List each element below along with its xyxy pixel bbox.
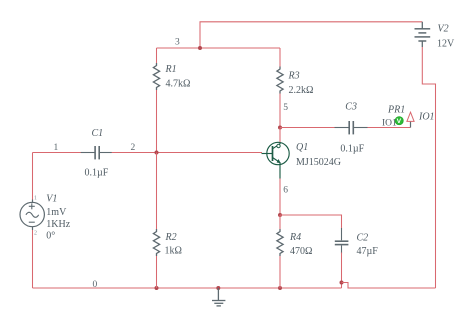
svg-text:5: 5 [283,103,288,113]
on-page connector IO1 [410,121,412,127]
svg-text:1mV: 1mV [46,207,67,218]
svg-text:0.1µF: 0.1µF [85,168,109,179]
svg-text:12V: 12V [437,39,455,50]
svg-text:2: 2 [34,231,37,237]
svg-text:1KHz: 1KHz [46,219,70,230]
node 6 junction dot [278,213,282,217]
svg-text:1kΩ: 1kΩ [165,246,182,257]
resistor R4 [277,229,283,256]
svg-text:1: 1 [54,143,59,153]
wire C2 bottom lead [341,253,343,289]
resistor R3 [277,67,283,94]
svg-text:R3: R3 [288,71,300,82]
svg-text:4.7kΩ: 4.7kΩ [166,79,191,90]
svg-text:PR1: PR1 [387,105,405,116]
wire V1 top lead [32,153,34,201]
wire node 1/2 horizontal (V1 to base) [33,152,82,154]
wire right riser to battery [422,47,435,288]
wire C3 to IO1 connector [368,127,411,129]
svg-text:3: 3 [175,38,180,48]
svg-text:0°: 0° [46,230,55,241]
svg-text:Q1: Q1 [296,142,308,153]
wire bottom rail [33,287,342,289]
wire R2 bottom lead [156,256,158,288]
resistor R2 [153,229,159,256]
transistor Q1 [262,142,290,178]
svg-text:6: 6 [283,186,288,196]
svg-text:IO1: IO1 [382,119,397,129]
svg-text:470Ω: 470Ω [290,246,312,257]
svg-text:R2: R2 [165,232,177,243]
svg-text:C1: C1 [92,128,104,139]
wire V1 bottom lead [32,230,34,288]
wire R4 bottom lead [279,256,281,288]
wire node 3 horizontal [157,47,281,49]
svg-text:2: 2 [131,143,136,153]
wire R2 top lead [156,153,158,230]
wire R3 bottom lead to collector node 5 [279,94,281,128]
svg-text:V2: V2 [438,23,449,34]
capacitor C3 [335,121,368,134]
capacitor C1 [81,146,112,159]
node 3 junction dot [198,46,202,50]
wire R1 bottom lead to node 2 [156,90,158,153]
wire notch to right rail [342,283,436,289]
wire node 6 to C2 [280,215,342,229]
svg-text:2.2kΩ: 2.2kΩ [289,85,314,96]
svg-text:0: 0 [93,280,98,290]
svg-text:47µF: 47µF [357,246,379,257]
wire R3 top lead [279,48,281,67]
node 2 junction dot [155,151,159,155]
svg-text:IO1: IO1 [418,112,435,123]
svg-text:C2: C2 [357,233,369,244]
node 5 junction dot [278,126,282,130]
battery V2 [415,22,431,47]
svg-text:R4: R4 [289,232,301,243]
junction dot ground [216,286,220,290]
junction dot C2 bottom [340,281,344,285]
svg-text:V1: V1 [46,193,57,204]
resistor R1 [153,63,159,90]
wire collector stub [279,128,281,143]
junction dot R2 bottom [155,286,159,290]
wire R4 top lead [279,215,281,229]
junction dot R4 bottom [278,286,282,290]
wire top rail from node 3 riser to V2 battery [200,22,422,48]
svg-text:1: 1 [34,196,37,202]
svg-text:V: V [397,118,402,125]
svg-text:R1: R1 [165,64,177,75]
wire R1 top lead [156,48,158,63]
svg-text:C3: C3 [345,102,357,113]
wire emitter to node 6 [279,179,281,216]
wire node 5 to C3 [280,127,335,129]
svg-text:MJ15024G: MJ15024G [296,157,341,168]
AC source V1 [20,200,44,231]
ground [212,288,225,306]
svg-text:0.1µF: 0.1µF [340,143,364,154]
capacitor C2 [335,228,349,254]
